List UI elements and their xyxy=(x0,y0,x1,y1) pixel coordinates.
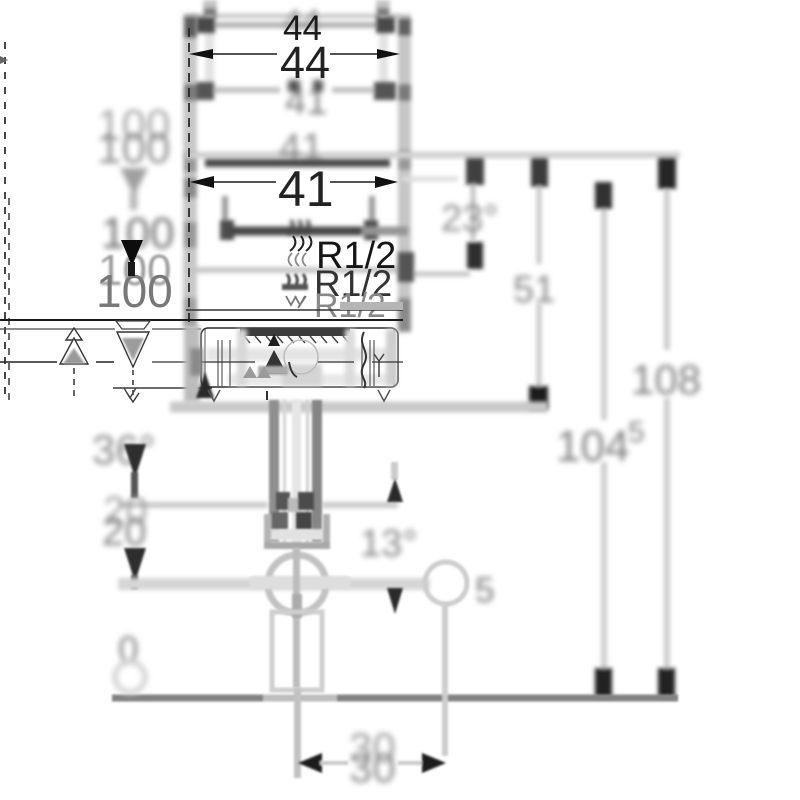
dimension 104.5 line xyxy=(595,182,612,697)
Y mark xyxy=(374,354,384,377)
small circle side view xyxy=(425,562,467,604)
inner box top dark edge xyxy=(205,159,390,167)
inner box side edges xyxy=(220,196,378,240)
label 0 blurry xyxy=(115,629,145,692)
body interior light columns xyxy=(205,16,388,94)
body outlet line xyxy=(186,267,400,273)
handwheel circle xyxy=(250,548,350,688)
label 41 ghost above inner box xyxy=(279,126,324,170)
thread symbol 4 xyxy=(286,296,306,308)
dimension 30 xyxy=(298,753,446,773)
arrow down to line A xyxy=(124,444,146,498)
body left dashed line xyxy=(188,28,190,324)
svg-text:100: 100 xyxy=(97,124,170,173)
label 23deg blurry xyxy=(441,198,498,240)
flow arrow down xyxy=(116,321,150,402)
top connection stub left xyxy=(203,0,217,18)
thread symbol crisp 1 xyxy=(290,236,311,251)
reference line 104.5 top xyxy=(402,177,458,182)
bracket corner arrow xyxy=(196,372,214,398)
pipe walls xyxy=(269,400,322,550)
label 20 blurry xyxy=(102,489,148,554)
dimension line y362 xyxy=(0,361,403,363)
top connection stub right xyxy=(376,0,390,18)
thread symbol dark 3 xyxy=(282,274,308,290)
floor line xyxy=(112,695,678,702)
plate arrow grey row 2 xyxy=(257,366,271,378)
dimension 13deg arrows xyxy=(387,462,403,614)
plate arrow small xyxy=(268,334,280,346)
svg-text:41: 41 xyxy=(278,161,334,217)
dimension 44 blurry text xyxy=(283,3,321,41)
reference line top of inner box xyxy=(186,152,680,159)
dimension 23deg xyxy=(398,158,484,282)
line 51 bottom reference xyxy=(170,402,548,413)
bracket slot lines left xyxy=(218,340,230,386)
wall inner line left xyxy=(0,328,201,330)
label 108 blurry xyxy=(631,356,701,403)
v mark left xyxy=(208,390,220,401)
drain S curve xyxy=(362,332,366,388)
valve seat dark parts xyxy=(272,492,314,530)
svg-text:5: 5 xyxy=(628,416,645,449)
svg-text:5: 5 xyxy=(475,571,494,610)
plate left grey band xyxy=(184,326,203,402)
body right edge band xyxy=(398,14,411,332)
wall line xyxy=(0,306,403,320)
svg-text:36°: 36° xyxy=(92,426,156,473)
dimension 108 line xyxy=(658,158,676,697)
dimension 44 crisp line xyxy=(189,49,400,59)
svg-text:44: 44 xyxy=(280,37,330,88)
plate grey columns xyxy=(237,329,397,386)
centerline far left xyxy=(5,42,9,400)
dimension line B xyxy=(118,578,430,590)
label 5 blurry xyxy=(475,571,494,610)
small circle centerline xyxy=(442,604,448,756)
plate arrow grey row xyxy=(243,366,257,378)
arrow at 100 xyxy=(121,240,143,276)
plate interior bands xyxy=(207,348,392,385)
label 30 blurry xyxy=(349,724,396,791)
plate arrow big xyxy=(258,350,288,375)
pipe top tick xyxy=(266,391,268,400)
svg-text:104: 104 xyxy=(556,422,629,471)
mounting plate box xyxy=(201,328,398,387)
v mark right xyxy=(378,390,390,401)
flow arrow up xyxy=(60,328,88,400)
left reference line y388 xyxy=(113,388,212,398)
thread symbol blurry top xyxy=(288,220,309,234)
arrow under 100 upper xyxy=(120,168,148,210)
dimension 41 blurry line xyxy=(192,82,396,100)
valve stem box xyxy=(272,612,322,690)
hatched band xyxy=(240,328,350,343)
svg-text:51: 51 xyxy=(513,269,555,311)
bracket slot lines right xyxy=(362,340,374,386)
label 100 lower middle copy xyxy=(98,246,171,295)
label 51 blurry xyxy=(513,269,555,311)
svg-text:13°: 13° xyxy=(360,523,417,565)
label 36deg blurry xyxy=(92,426,156,473)
dimension 41 blurry text xyxy=(285,80,327,123)
svg-text:20: 20 xyxy=(102,510,147,554)
svg-text:23°: 23° xyxy=(441,198,498,240)
svg-text:30: 30 xyxy=(349,744,396,791)
label 100 upper blurry xyxy=(97,101,170,173)
inner box bottom dark edge xyxy=(228,227,408,236)
arrow down to line B xyxy=(124,548,146,589)
plate circle xyxy=(284,340,318,377)
small arrow far left xyxy=(0,56,8,64)
body top edge xyxy=(186,14,400,19)
pipe centerline lower xyxy=(294,688,301,778)
label 104.5 blurry xyxy=(556,416,645,471)
pipe flange xyxy=(264,514,330,549)
dimension 41 crisp line xyxy=(190,176,398,188)
dimension 51 line xyxy=(529,158,548,409)
body left edge band xyxy=(183,14,197,328)
label 100 lower blurry ghost xyxy=(101,209,174,258)
label 13deg blurry xyxy=(360,523,417,565)
dimension line A xyxy=(120,502,398,508)
thread symbol crisp 2 xyxy=(289,253,307,266)
dimension 44 blurry line xyxy=(196,17,395,33)
svg-text:108: 108 xyxy=(631,356,701,403)
